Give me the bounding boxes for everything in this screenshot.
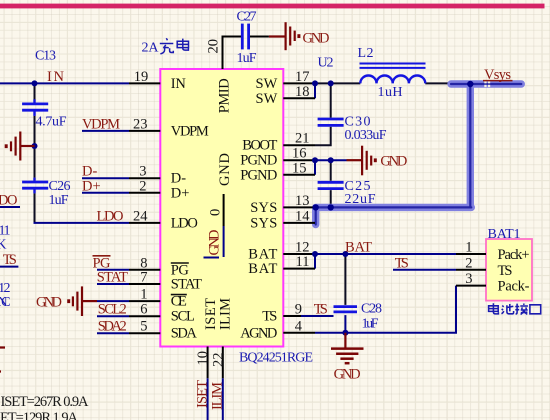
pin 8 PG [129,269,160,271]
pin 1 BAT1 Pack+ [456,253,486,255]
svg-text:7: 7 [140,270,147,286]
pin 3 D- [129,177,160,179]
svg-text:1uF: 1uF [49,193,69,208]
pin 0 GND inner line [223,194,225,226]
svg-text:11: 11 [296,254,310,270]
svg-text:9: 9 [295,302,302,318]
wire net PG [97,269,129,271]
pin 2 D+ [129,192,160,194]
svg-text:18: 18 [295,84,310,100]
wire net TS pin9 stub [301,315,334,317]
svg-text:U2: U2 [318,56,334,71]
pin name PG with overline [171,262,190,278]
capacitor C26 [22,178,48,194]
svg-text:BOOT: BOOT [242,138,277,154]
wire C25 column to SYS [330,160,332,207]
wire net D- [82,177,129,179]
wire C28 column [344,254,346,305]
wire net SDA2 [97,332,129,334]
svg-text:0.033uF: 0.033uF [345,128,387,143]
svg-text:IN: IN [47,69,65,85]
wire net D+ [82,192,129,194]
svg-text:13: 13 [295,193,310,209]
inductor L2 [360,64,426,84]
svg-text:BAT: BAT [248,247,277,263]
pin 5 SDA [129,332,160,334]
svg-text:2: 2 [465,255,472,271]
svg-text:PMID: PMID [216,78,232,113]
svg-text:D+: D+ [171,185,190,201]
svg-text:23: 23 [133,116,148,132]
pin 16 PGND [283,159,315,161]
pin 10 ISET [207,347,209,379]
wire stub net TS left edge [0,266,18,268]
svg-text:1uF: 1uF [362,316,379,331]
svg-text:1uF: 1uF [237,51,257,66]
svg-text:BQ24251RGE: BQ24251RGE [239,351,313,366]
svg-text:AGND: AGND [240,325,277,341]
svg-text:22: 22 [211,353,227,368]
svg-text:GND: GND [207,230,223,256]
svg-text:SDA2: SDA2 [98,319,127,335]
wire net ISET vertical [207,378,209,420]
pin 23 VDPM [129,130,160,132]
svg-text:16: 16 [292,146,307,162]
wire net GND row AGND to Pack- [315,286,456,333]
svg-text:SW: SW [256,76,278,92]
wire net BAT pins 12/11 to BAT1 [315,254,456,269]
svg-text:TS: TS [498,263,513,279]
svg-text:NC: NC [0,295,11,310]
svg-text:CE: CE [171,294,187,310]
svg-text:STAT: STAT [171,277,202,293]
svg-text:PGND: PGND [240,153,277,169]
svg-text:4: 4 [295,318,303,334]
wire net SCL2 [97,315,129,317]
power port Vsys [483,67,513,83]
svg-text:D-: D- [82,164,97,180]
capacitor C13 [22,99,48,116]
svg-text:SYS: SYS [250,200,277,216]
svg-text:VDPM: VDPM [171,123,209,139]
capacitor C30 [318,119,344,125]
svg-text:5: 5 [140,319,147,335]
wire left column vertical C13/C26 [34,83,36,223]
pin 2 BAT1 TS [456,269,486,271]
svg-text:SW: SW [256,91,278,107]
svg-text:14: 14 [295,208,310,224]
wire net STAT [97,283,129,285]
wire C30 column BOOT [315,83,331,145]
svg-text:4.7uF: 4.7uF [36,115,67,130]
ground power symbol at CE pin [69,286,97,316]
pin 20 PMID with C27 path [223,37,269,70]
svg-text:0: 0 [208,209,224,216]
svg-text:GND: GND [303,31,330,47]
svg-text:LDO: LDO [0,193,18,209]
pin 24 LDO [129,222,160,224]
svg-text:SYS: SYS [250,215,277,231]
svg-text:STAT: STAT [97,270,128,286]
svg-text:BAT: BAT [345,240,372,256]
svg-text:ILIM: ILIM [218,298,234,330]
wire stub net LDO left edge [0,206,20,208]
pin 22 ILIM [222,347,224,379]
svg-text:C27: C27 [237,10,257,25]
earth ground symbol below C28 [331,333,364,363]
capacitor C25 [318,182,344,188]
svg-text:6: 6 [140,302,147,318]
svg-text:C13: C13 [35,49,56,64]
net label anchor marks on Vsys wire [484,81,490,87]
text 2A charging chinese [142,38,189,55]
svg-text:PGND: PGND [240,167,277,183]
IC U2 body BQ24251RGE [160,69,283,347]
pin 17 SW [283,82,315,84]
svg-text:SCL2: SCL2 [98,302,127,318]
svg-text:1: 1 [140,287,147,303]
capacitor C27 [242,24,248,50]
svg-text:L2: L2 [358,46,374,61]
svg-text:LDO: LDO [171,215,198,231]
pin 1 CE [129,300,160,302]
svg-text:D-: D- [171,171,186,187]
svg-text:TS: TS [395,255,409,271]
pin 9 TS [283,315,301,317]
svg-text:LDO: LDO [97,208,124,224]
svg-text:17: 17 [295,69,310,85]
pin 21 BOOT [283,144,315,146]
svg-text:ILIM: ILIM [210,382,226,410]
svg-text:24: 24 [133,208,148,224]
thick wire net Vsys [316,84,522,225]
svg-text:TS: TS [3,252,17,268]
svg-text:2A: 2A [142,41,160,56]
svg-text:GND: GND [36,295,62,311]
capacitor C28 [334,307,358,312]
svg-text:R11: R11 [0,224,11,239]
svg-text:GND: GND [334,367,361,383]
svg-text:21: 21 [295,131,310,147]
svg-text:20: 20 [206,39,222,54]
svg-text:D+: D+ [82,178,101,194]
svg-text:1uH: 1uH [378,85,403,100]
svg-text:2: 2 [139,178,146,194]
svg-text:IN: IN [171,76,187,92]
svg-text:Pack-: Pack- [498,279,530,295]
connector BAT1 body [486,239,532,301]
svg-text:ET=129R 1.9A: ET=129R 1.9A [0,410,79,420]
svg-text:15: 15 [292,160,307,176]
svg-text:22uF: 22uF [345,192,376,207]
wire net PGND pins 16/15 [315,160,347,175]
pin 18 SW [283,97,315,99]
net label PG with overline [93,255,112,271]
title bar [0,4,545,9]
ground power symbol at C27 [269,22,299,50]
svg-text:GND: GND [380,154,407,170]
pin 15 PGND [283,174,315,176]
svg-text:SDA: SDA [171,326,198,342]
svg-text:3: 3 [465,271,472,287]
svg-text:10: 10 [195,351,211,366]
svg-text:Pack+: Pack+ [498,247,530,263]
pin 12 BAT [283,253,315,255]
wire net ILIM vertical [222,378,224,420]
svg-text:SCL: SCL [171,309,195,325]
wire net CE to GND [97,300,129,302]
pin 11 BAT [283,268,315,270]
wire net SW inductor to Vsys [425,82,452,84]
svg-text:BAT1: BAT1 [488,227,521,242]
wire net VDPM [82,130,129,132]
svg-text:0K: 0K [0,238,7,253]
svg-text:R12: R12 [0,281,11,296]
svg-text:GND: GND [217,153,233,186]
pin 6 SCL [129,315,160,317]
svg-text:TS: TS [314,302,328,318]
svg-text:ISET=267R 0.9A: ISET=267R 0.9A [1,394,90,410]
svg-text:VDPM: VDPM [82,116,120,132]
pin 19 IN [129,82,160,84]
clipped symbol fragment left edge lower [0,348,5,372]
wire net TS to BAT1 pin2 [393,269,456,271]
svg-text:3: 3 [139,164,146,180]
ground power symbol at C13 node [6,132,34,161]
pin 4 AGND [283,332,315,334]
text battery connector chinese [489,303,541,314]
pin 13 SYS [283,206,315,208]
wire net IN horizontal [0,82,129,84]
pin 3 BAT1 Pack- [456,285,486,287]
wire net SW from pins 17/18 to inductor [314,83,316,98]
svg-text:12: 12 [295,240,310,256]
svg-text:C26: C26 [49,179,71,194]
pin 7 STAT [129,283,160,285]
svg-text:C28: C28 [361,301,382,316]
pin name CE with overline [171,294,187,310]
pin 14 SYS [283,222,315,224]
svg-text:TS: TS [262,309,277,325]
svg-text:BAT: BAT [248,261,277,277]
ground power symbol at PGND node [347,146,376,176]
svg-text:1: 1 [465,240,472,256]
svg-text:ISET: ISET [195,380,211,408]
svg-text:19: 19 [134,69,149,85]
